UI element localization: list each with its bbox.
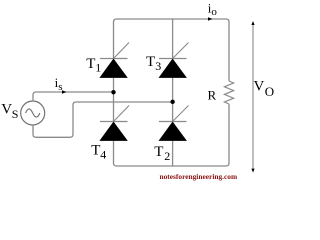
- wire: load bottom to bottom rail, back to T4 bottom: [114, 104, 230, 166]
- svg-text:T: T: [91, 143, 100, 159]
- wire: T3 top to top rail: [172, 19, 174, 59]
- svg-text:T: T: [154, 144, 163, 160]
- svg-text:o: o: [211, 6, 217, 18]
- svg-text:2: 2: [164, 149, 170, 163]
- thyristor T4: [99, 106, 129, 141]
- svg-text:notesforengineering.com: notesforengineering.com: [160, 172, 238, 181]
- voltage arrow VO double-headed: [251, 21, 254, 173]
- wire: left bridge middle segment T1 base to T4 bar: [113, 78, 115, 122]
- current arrow io: [208, 17, 213, 20]
- svg-text:3: 3: [155, 59, 161, 73]
- wire: source bottom, around to node B: [33, 102, 173, 137]
- svg-text:R: R: [208, 88, 217, 103]
- node A junction dot: [111, 90, 115, 94]
- wire: T2 base to bottom rail: [172, 141, 174, 166]
- ac source VS circle: [21, 101, 45, 125]
- wire: top rail from T1 top, across to load branch, down right side: [114, 19, 230, 81]
- thyristor T2: [159, 106, 189, 141]
- thyristor T3: [159, 43, 189, 78]
- thyristor T1: [99, 43, 129, 78]
- svg-text:T: T: [86, 56, 95, 72]
- node B junction dot: [170, 100, 174, 104]
- svg-text:S: S: [12, 107, 19, 121]
- svg-text:4: 4: [100, 148, 106, 162]
- svg-text:T: T: [146, 54, 155, 70]
- wire: source top to node A: [33, 92, 114, 102]
- ac source sine wave: [26, 109, 40, 117]
- svg-text:O: O: [265, 84, 274, 99]
- svg-text:V: V: [1, 102, 12, 118]
- svg-text:V: V: [254, 79, 265, 95]
- current arrow is: [62, 90, 67, 93]
- svg-text:s: s: [58, 81, 62, 93]
- wire: right bridge middle segment T3 base to T2 bar: [172, 78, 174, 122]
- resistor R1 zigzag: [224, 81, 233, 104]
- svg-text:1: 1: [95, 61, 101, 75]
